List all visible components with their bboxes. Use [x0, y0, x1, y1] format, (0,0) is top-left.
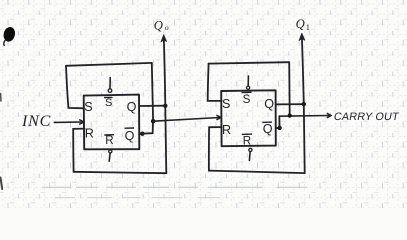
- svg-text:Q: Q: [263, 122, 273, 136]
- svg-text:o: o: [165, 23, 169, 32]
- INC input label: [21, 113, 51, 130]
- node A (clock junction dot): [151, 119, 155, 123]
- wire FF0 S-feedback: right drop from top edge to node A: [152, 63, 153, 121]
- wire FF1 S-feedback: right drop to node E: [288, 62, 291, 115]
- svg-text:S: S: [105, 97, 112, 109]
- wire FF0 S-feedback: top edge of loop: [66, 63, 152, 66]
- wire FF0 Q output to node B: [139, 105, 165, 107]
- faint darker grid row: [42, 186, 307, 188]
- FF0 preset pin stub with bubble: [108, 78, 112, 93]
- svg-text:R: R: [105, 134, 113, 147]
- wire FF0 R-feedback: bottom edge of loop: [74, 172, 167, 173]
- label CARRY OUT: [333, 111, 400, 123]
- svg-text:Q: Q: [154, 19, 163, 33]
- svg-text:Q: Q: [125, 129, 135, 143]
- FF0 pin label Q: [127, 100, 137, 114]
- svg-text:CARRY OUT: CARRY OUT: [333, 111, 400, 123]
- ink blot (top-left): [2, 26, 16, 46]
- FF0 pin label Q-bar: [125, 128, 135, 143]
- arrowhead Q0 (up): [161, 35, 167, 42]
- wire FF0 S-feedback: left drop to S input: [66, 66, 84, 109]
- label Q0: [154, 19, 169, 33]
- arrowhead clock into FF1: [216, 115, 221, 120]
- flip-flop FF0 body: [84, 95, 140, 150]
- FF1 clear pin stub with bubble: [249, 148, 252, 160]
- FF1 pin label S: [222, 97, 230, 111]
- FF0 pin label R-bar (clear): [104, 134, 114, 147]
- arrowhead Q1 (up): [299, 33, 305, 40]
- node F (Q-bar junction dot): [277, 126, 281, 130]
- svg-text:Q: Q: [127, 100, 137, 114]
- node B (Q0 junction dot): [163, 104, 167, 108]
- wire FF1 R-feedback: R stub: [209, 126, 222, 128]
- wire carry-out line: [279, 115, 329, 118]
- wire FF0 R-feedback: left rise to R input: [73, 129, 84, 172]
- wire Q0 output riser (arrow up) and feedback drop down: [164, 38, 167, 174]
- wire FF1 S-feedback: top edge of loop: [209, 62, 290, 63]
- arrowhead INC into FF0: [79, 120, 84, 125]
- FF0 clear pin stub with bubble: [109, 150, 112, 161]
- wire Q-bar riser to carry line: [278, 116, 280, 128]
- wire Q-bar jog up to node A: [142, 121, 153, 133]
- svg-text:1: 1: [306, 23, 310, 32]
- wire FF1 R-feedback: bottom edge of loop: [209, 171, 305, 174]
- faint darker grid row 2: [55, 197, 220, 199]
- node D (Q1 junction dot): [302, 102, 306, 106]
- FF1 pin label R: [222, 123, 231, 137]
- svg-text:S: S: [84, 100, 92, 114]
- flip-flop FF1 body: [221, 90, 276, 146]
- svg-text:Q: Q: [264, 97, 274, 111]
- svg-text:R: R: [85, 126, 94, 140]
- node E (carry junction dot): [288, 114, 292, 118]
- label Q1: [296, 17, 310, 32]
- arrowhead carry out (right): [327, 113, 331, 118]
- FF1 pin label S-bar (preset): [242, 92, 252, 106]
- svg-text:Q: Q: [296, 17, 305, 31]
- svg-text:S: S: [222, 97, 230, 111]
- svg-text:S: S: [243, 93, 251, 106]
- wire FF1 R-feedback: left drop: [208, 127, 210, 170]
- svg-text:INC: INC: [21, 113, 51, 130]
- page-edge smudge upper: [0, 94, 2, 102]
- FF1 pin label Q: [264, 97, 274, 111]
- FF0 pin label R: [85, 126, 94, 140]
- FF1 pin label R-bar (clear): [242, 134, 252, 148]
- wire Q1 output riser and feedback drop: [302, 37, 305, 174]
- svg-text:R: R: [243, 135, 251, 148]
- FF1 pin label Q-bar: [262, 122, 272, 136]
- wire clock line FF0 to FF1: [153, 118, 220, 122]
- wire INC input line: [54, 121, 82, 123]
- wire FF1 Q-bar output stub: [276, 127, 279, 129]
- wire FF1 S-feedback: left drop to S input: [208, 64, 222, 101]
- node C (Q-bar junction dot): [140, 132, 144, 136]
- FF0 pin label S: [84, 100, 92, 114]
- FF1 preset pin stub with bubble: [247, 76, 250, 89]
- FF0 pin label S-bar (preset): [104, 97, 113, 109]
- page-edge smudge lower: [1, 178, 3, 190]
- wire FF0 Q-bar output stub: [139, 133, 141, 135]
- wire FF1 Q output to node D: [276, 103, 304, 105]
- svg-text:R: R: [222, 123, 231, 137]
